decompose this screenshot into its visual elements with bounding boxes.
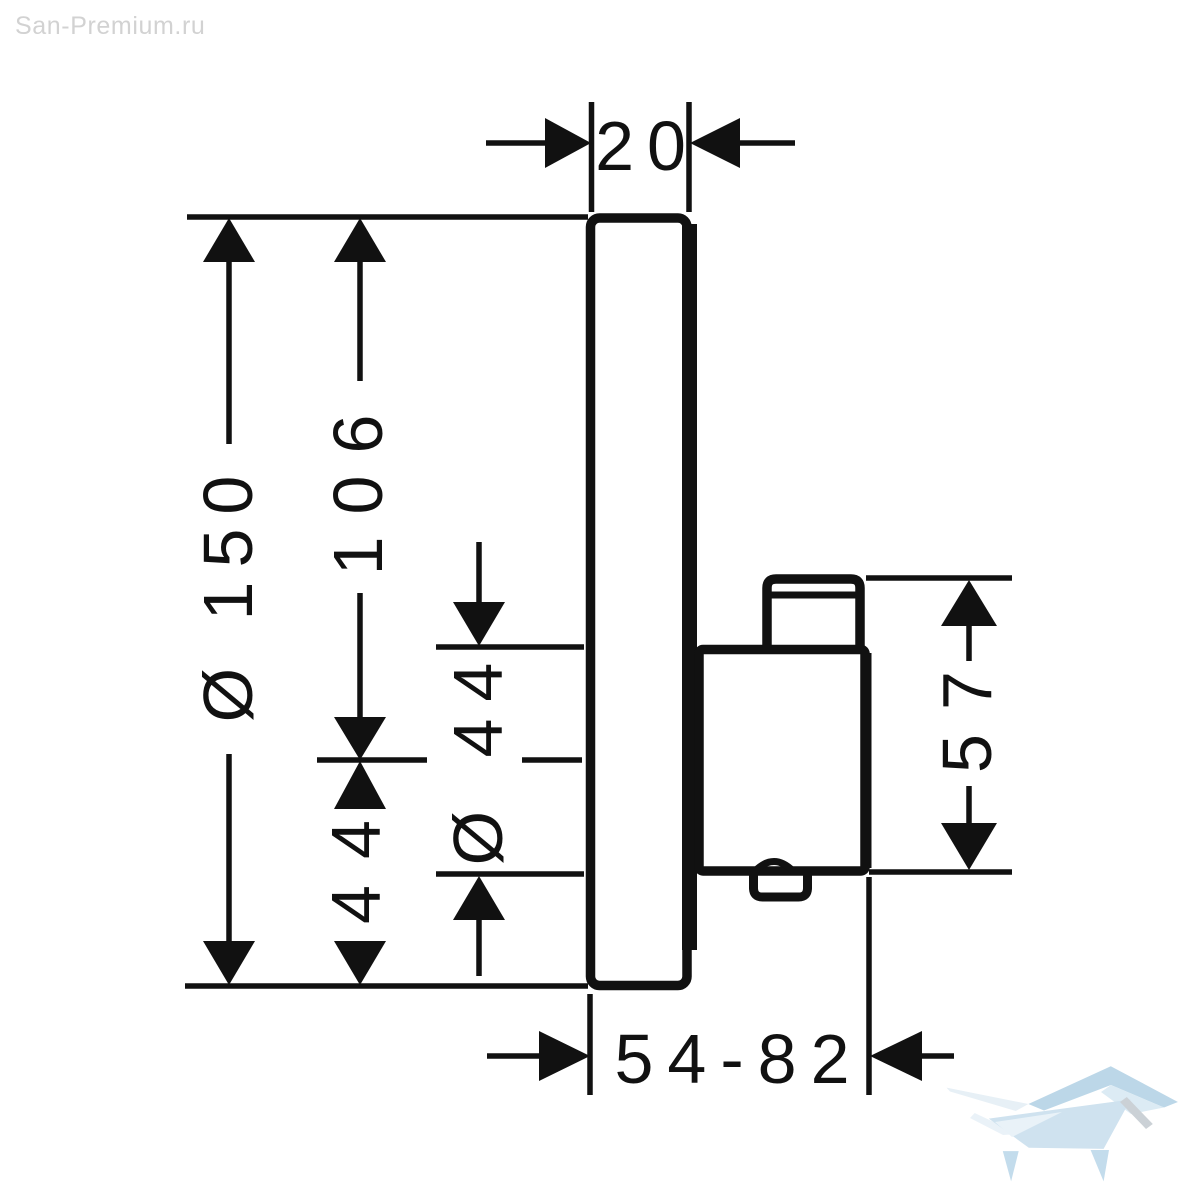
svg-text:54-82: 54-82 — [614, 1020, 863, 1098]
svg-text:106: 106 — [319, 393, 397, 576]
svg-text:44: 44 — [317, 794, 395, 924]
svg-text:San-Premium.ru: San-Premium.ru — [15, 12, 205, 40]
svg-text:Ø 44: Ø 44 — [439, 646, 517, 866]
svg-text:20: 20 — [595, 107, 699, 185]
svg-text:57: 57 — [928, 647, 1006, 773]
svg-text:Ø 150: Ø 150 — [189, 462, 267, 723]
